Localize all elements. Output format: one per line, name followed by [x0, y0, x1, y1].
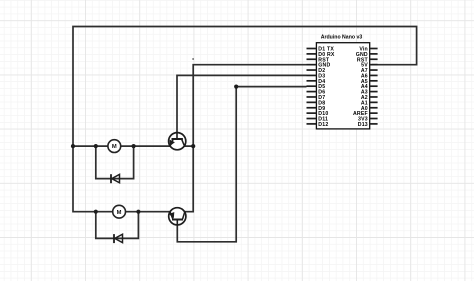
svg-text:M: M	[112, 144, 117, 150]
svg-text:D13: D13	[358, 122, 368, 128]
svg-text:M: M	[117, 210, 122, 216]
svg-text:D12: D12	[318, 122, 328, 128]
svg-text:Arduino Nano v3: Arduino Nano v3	[321, 34, 363, 40]
